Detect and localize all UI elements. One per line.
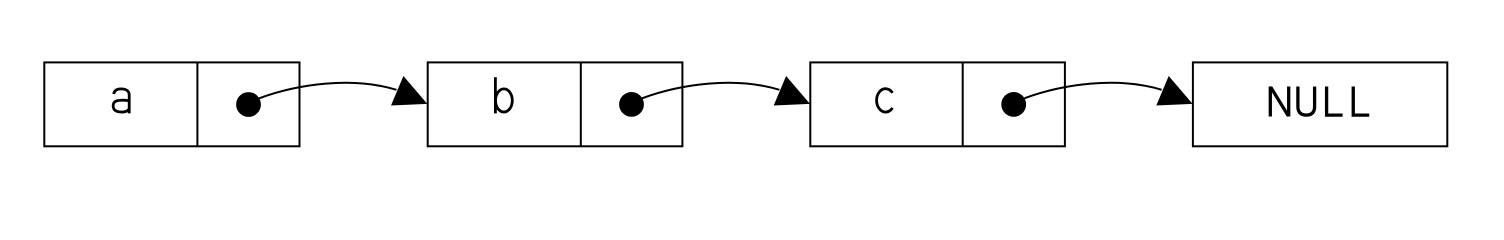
node c box [810, 62, 1065, 146]
NULL label glyphs [1270, 87, 1369, 117]
node b label glyph [495, 77, 512, 113]
node b pointer dot [619, 92, 644, 117]
wire edge b to c [642, 83, 779, 98]
NULL box [1193, 62, 1447, 146]
node c label glyph [877, 89, 893, 112]
node c pointer dot [1001, 92, 1026, 117]
node a box [44, 62, 299, 146]
arrowhead a to b [391, 76, 427, 106]
node a label glyph [113, 89, 129, 114]
node b box [428, 62, 683, 146]
wire edge c to NULL [1024, 83, 1161, 98]
arrowhead c to NULL [1156, 76, 1192, 106]
arrowhead b to c [774, 76, 810, 106]
node a pointer dot [236, 92, 261, 117]
wire edge a to b [259, 83, 396, 98]
